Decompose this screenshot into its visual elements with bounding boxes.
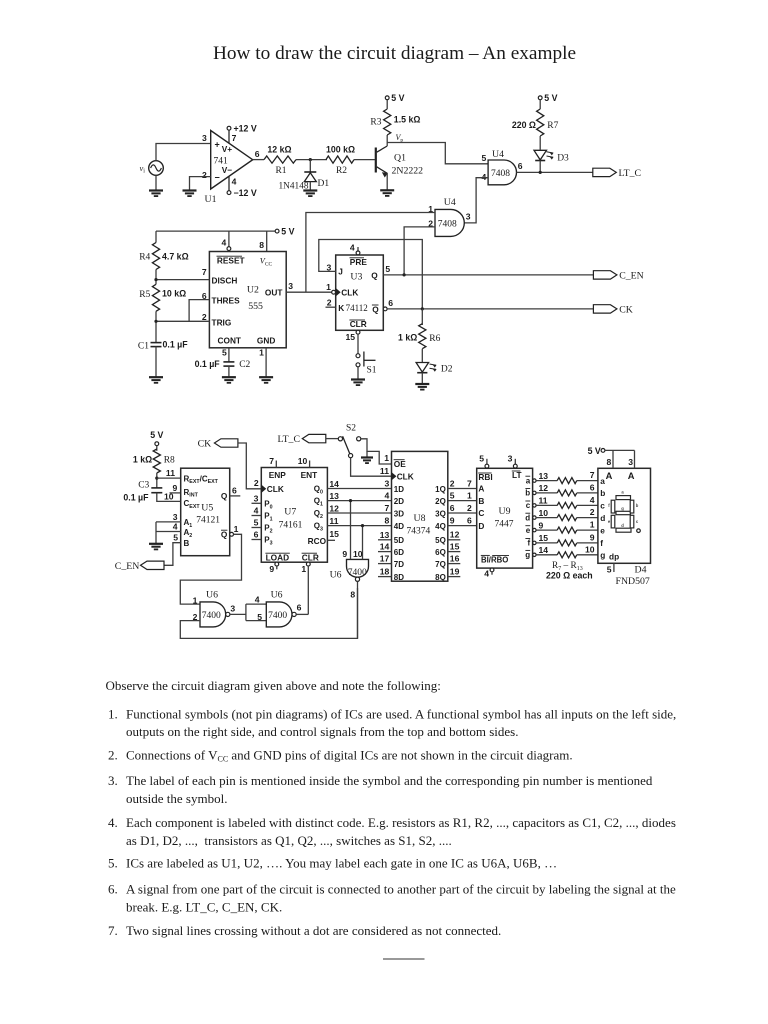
resistor R6 xyxy=(421,309,423,325)
wire U4B pin1 from 555 OUT node xyxy=(306,213,435,293)
svg-text:U6: U6 xyxy=(271,589,283,600)
5V terminal above R3 xyxy=(386,100,388,109)
svg-text:V+: V+ xyxy=(222,144,233,154)
NAND gate U6B 7400 xyxy=(266,602,292,627)
svg-text:15: 15 xyxy=(345,332,355,342)
U5 A1 input pin 3 xyxy=(156,521,181,523)
D4 decimal point xyxy=(637,529,641,533)
svg-text:R5: R5 xyxy=(139,290,150,300)
svg-text:CLR: CLR xyxy=(302,552,319,562)
svg-text:1: 1 xyxy=(301,564,306,574)
GND pin 1 wire xyxy=(265,348,267,377)
svg-text:LT: LT xyxy=(512,470,522,480)
svg-text:2: 2 xyxy=(590,507,595,517)
diode D1 1N4148 xyxy=(309,160,311,172)
svg-text:15: 15 xyxy=(329,529,339,539)
tag C_EN output xyxy=(593,271,617,279)
svg-text:4: 4 xyxy=(590,495,595,505)
wire U4B pin2 from U3 Q xyxy=(404,227,435,275)
svg-text:12: 12 xyxy=(450,530,460,540)
svg-text:U7: U7 xyxy=(284,506,296,517)
svg-text:4: 4 xyxy=(484,569,489,579)
wire CLR to switch S1 xyxy=(357,334,359,353)
svg-text:9: 9 xyxy=(173,483,178,493)
svg-text:c: c xyxy=(526,501,531,510)
svg-text:R3: R3 xyxy=(370,117,381,127)
svg-text:6: 6 xyxy=(388,298,393,308)
wire Q-bar to CK tag xyxy=(387,308,593,310)
U9 RBI pin 5 xyxy=(486,459,488,464)
svg-text:The label of each pin is menti: The label of each pin is mentioned insid… xyxy=(126,773,653,788)
svg-text:74121: 74121 xyxy=(196,515,220,525)
svg-text:5: 5 xyxy=(173,533,178,543)
AND gate U4A 7408 xyxy=(488,160,516,185)
svg-text:CK: CK xyxy=(198,438,212,449)
svg-text:V−: V− xyxy=(222,165,233,175)
svg-text:4: 4 xyxy=(385,491,390,501)
wire source to pin3 xyxy=(156,144,211,161)
svg-text:7: 7 xyxy=(232,133,237,143)
U3 CLK pin 1 xyxy=(332,290,336,294)
svg-text:Q1: Q1 xyxy=(394,152,406,163)
svg-text:e: e xyxy=(600,525,605,535)
svg-text:LOAD: LOAD xyxy=(266,552,290,562)
svg-text:3: 3 xyxy=(508,454,513,464)
svg-text:14: 14 xyxy=(539,545,549,555)
svg-text:7: 7 xyxy=(202,267,207,277)
D4 digit segment d xyxy=(616,528,631,532)
svg-text:1: 1 xyxy=(259,348,264,358)
wire U5 pin11 xyxy=(157,477,181,479)
svg-text:3: 3 xyxy=(254,493,259,503)
svg-text:d: d xyxy=(600,513,605,523)
wire U5 Q-bar to U6A pin1 xyxy=(180,534,241,604)
svg-text:b: b xyxy=(600,488,605,498)
svg-text:f: f xyxy=(528,539,531,548)
resistor R2 xyxy=(326,156,354,163)
svg-text:8: 8 xyxy=(607,457,612,467)
svg-text:1: 1 xyxy=(384,453,389,463)
svg-text:Q: Q xyxy=(221,530,228,540)
svg-text:2Q: 2Q xyxy=(435,497,446,506)
svg-text:S2: S2 xyxy=(346,423,356,433)
wire 555 OUT to U3 CLK xyxy=(286,291,332,293)
svg-text:C_EN: C_EN xyxy=(619,270,644,281)
svg-text:5: 5 xyxy=(607,565,612,575)
wire U6C input 10 from 4D row xyxy=(362,526,364,560)
svg-text:Two signal lines crossing with: Two signal lines crossing without a dot … xyxy=(126,923,501,938)
svg-text:8: 8 xyxy=(350,590,355,600)
svg-text:5: 5 xyxy=(482,153,487,163)
svg-text:LT_C: LT_C xyxy=(619,168,642,179)
D4 digit segment e xyxy=(611,515,615,528)
wire U7 CLR from U6B output xyxy=(307,566,309,614)
svg-text:220 Ω each: 220 Ω each xyxy=(546,570,593,580)
svg-text:GND: GND xyxy=(257,335,275,345)
svg-text:outside the symbol.: outside the symbol. xyxy=(126,791,227,806)
svg-text:D: D xyxy=(478,521,484,531)
svg-text:g: g xyxy=(525,551,530,560)
svg-text:TRIG: TRIG xyxy=(212,317,232,327)
svg-text:1: 1 xyxy=(193,595,198,605)
ground below S1 xyxy=(351,378,365,380)
svg-text:1: 1 xyxy=(467,490,472,500)
wire op-amp output pin 6 xyxy=(253,159,264,161)
transistor Q1 2N2222 xyxy=(375,148,377,173)
U5 Q stub pin 6 xyxy=(230,495,241,497)
svg-text:18: 18 xyxy=(380,567,390,577)
capacitor C3 xyxy=(151,487,162,489)
U7 CLK pin 2 xyxy=(261,485,265,492)
svg-text:2.: 2. xyxy=(108,747,118,762)
svg-text:g: g xyxy=(600,550,605,560)
svg-text:4: 4 xyxy=(255,594,260,604)
op-amp U1 xyxy=(211,131,253,190)
svg-text:RESET: RESET xyxy=(217,256,245,266)
wire R2 to Q1 base xyxy=(354,159,375,161)
switch S1 xyxy=(356,354,360,358)
svg-text:R6: R6 xyxy=(429,334,440,344)
svg-text:U3: U3 xyxy=(350,271,362,282)
wire S2 common to U8 CLK xyxy=(351,458,392,476)
svg-text:3: 3 xyxy=(466,212,471,222)
wire THRES pin6 xyxy=(189,300,209,322)
D4 pin 5 tick xyxy=(613,563,615,572)
svg-text:7: 7 xyxy=(467,478,472,488)
svg-text:5: 5 xyxy=(257,612,262,622)
svg-text:3: 3 xyxy=(288,281,293,291)
ground below D2 xyxy=(415,383,429,385)
svg-text:c: c xyxy=(600,501,605,511)
svg-text:C2: C2 xyxy=(239,360,250,370)
svg-text:7: 7 xyxy=(590,470,595,480)
svg-text:D2: D2 xyxy=(441,364,453,374)
wire U7 Q3 pin 11 to U8 4D xyxy=(327,525,391,527)
svg-text:3Q: 3Q xyxy=(435,509,446,518)
svg-text:B: B xyxy=(184,539,190,548)
555 Vcc pin 8 xyxy=(266,231,268,251)
svg-text:ICs are labeled as U1, U2, ….: ICs are labeled as U1, U2, …. You may la… xyxy=(126,856,557,871)
svg-text:6: 6 xyxy=(254,530,259,540)
V+ supply +12V pin 7 xyxy=(228,130,230,144)
svg-text:74112: 74112 xyxy=(346,303,368,313)
svg-text:6: 6 xyxy=(467,515,472,525)
svg-text:Connections of VCC and GND pin: Connections of VCC and GND pins of digit… xyxy=(126,747,573,763)
wire Vp node to gate U4A pin5 xyxy=(387,143,488,164)
svg-text:R4: R4 xyxy=(139,253,150,263)
U3 K pin 2 stub xyxy=(326,306,336,308)
LED D2 xyxy=(416,363,429,373)
IC U3 74112 box xyxy=(336,255,384,330)
U8 5D stub pin 13 xyxy=(378,539,392,541)
U8 8D stub pin 18 xyxy=(378,576,392,578)
footer rule xyxy=(383,958,425,960)
svg-text:3: 3 xyxy=(628,457,633,467)
svg-text:FND507: FND507 xyxy=(616,576,650,587)
svg-text:3: 3 xyxy=(202,133,207,143)
svg-text:4: 4 xyxy=(350,242,355,252)
svg-text:K: K xyxy=(338,303,344,313)
svg-text:2: 2 xyxy=(202,170,207,180)
svg-text:C1: C1 xyxy=(138,341,149,351)
wire U6C output 8 xyxy=(357,581,359,638)
svg-text:7D: 7D xyxy=(394,560,404,569)
resistor R1 xyxy=(264,156,296,163)
svg-text:7: 7 xyxy=(385,503,390,513)
svg-text:R8: R8 xyxy=(164,456,175,466)
node R8 C3 junction xyxy=(155,477,158,480)
wire U6B out to U7 CLR xyxy=(296,613,308,615)
capacitor C2 at CONT pin5 xyxy=(228,348,230,362)
svg-text:7408: 7408 xyxy=(438,220,457,230)
svg-text:Q: Q xyxy=(221,491,228,501)
svg-text:D3: D3 xyxy=(557,153,569,163)
svg-text:19: 19 xyxy=(450,566,460,576)
svg-text:4.7 kΩ: 4.7 kΩ xyxy=(162,251,189,261)
wire Q to C_EN tag xyxy=(383,274,593,276)
ground at Q1 emitter xyxy=(380,189,394,191)
svg-text:5: 5 xyxy=(385,264,390,274)
svg-text:5D: 5D xyxy=(394,536,404,545)
wire TRIG pin2 xyxy=(156,320,209,322)
svg-text:Q: Q xyxy=(372,304,379,314)
svg-text:C_EN: C_EN xyxy=(115,561,140,572)
svg-text:1D: 1D xyxy=(394,485,404,494)
U7 P0 stub pin 3 xyxy=(252,502,262,504)
U7 P2 stub pin 5 xyxy=(252,527,262,529)
svg-text:as D1, D2, ..., transistors a: as D1, D2, ..., transistors as Q1, Q2, .… xyxy=(126,833,452,848)
svg-text:3D: 3D xyxy=(394,509,404,518)
svg-text:7447: 7447 xyxy=(495,520,514,530)
resistor R3 xyxy=(384,109,391,135)
ground below D1 xyxy=(303,189,317,191)
svg-text:R1: R1 xyxy=(275,166,286,176)
svg-text:OE: OE xyxy=(394,459,406,469)
svg-text:10: 10 xyxy=(539,508,549,518)
svg-text:d: d xyxy=(525,513,530,522)
svg-text:6.: 6. xyxy=(108,881,118,896)
svg-text:1: 1 xyxy=(234,524,239,534)
svg-text:RBI: RBI xyxy=(478,472,492,482)
svg-text:4: 4 xyxy=(232,176,237,186)
svg-text:4: 4 xyxy=(173,521,178,531)
svg-text:12: 12 xyxy=(539,483,549,493)
svg-text:C: C xyxy=(478,508,484,518)
svg-text:CK: CK xyxy=(619,304,633,315)
node Q-bar junction xyxy=(421,307,424,310)
svg-text:220 Ω: 220 Ω xyxy=(512,120,536,130)
svg-text:b: b xyxy=(525,489,530,498)
wire U4A output to LT_C xyxy=(517,171,593,173)
U7 ENP pin 7 tick xyxy=(275,461,277,468)
svg-text:U1: U1 xyxy=(205,194,217,205)
svg-text:U8: U8 xyxy=(414,513,426,524)
svg-text:CLK: CLK xyxy=(341,288,358,298)
svg-text:dp: dp xyxy=(609,552,619,562)
svg-text:A: A xyxy=(606,471,613,481)
svg-text:9: 9 xyxy=(342,549,347,559)
svg-text:2: 2 xyxy=(327,298,332,308)
wire A1 A2 to ground xyxy=(155,522,157,544)
svg-text:THRES: THRES xyxy=(212,295,241,305)
NAND gate U6A 7400 xyxy=(200,602,226,627)
ground below A inputs xyxy=(149,543,163,545)
svg-text:PRE: PRE xyxy=(350,257,368,267)
wire U7 Q1 pin 13 to U8 2D xyxy=(327,500,391,502)
D4 digit segment g xyxy=(616,511,631,514)
wire R1 to R2 xyxy=(296,159,327,161)
svg-text:OUT: OUT xyxy=(265,288,283,298)
svg-text:11: 11 xyxy=(539,496,548,506)
svg-text:13: 13 xyxy=(329,491,339,501)
svg-text:6: 6 xyxy=(450,503,455,513)
svg-text:5: 5 xyxy=(479,454,484,464)
svg-text:5 V: 5 V xyxy=(588,446,601,456)
svg-text:5.: 5. xyxy=(108,856,118,871)
svg-text:2: 2 xyxy=(254,478,259,488)
svg-text:4: 4 xyxy=(482,172,487,182)
svg-text:12 kΩ: 12 kΩ xyxy=(267,144,291,154)
node D3 junction xyxy=(539,171,542,174)
svg-text:7.: 7. xyxy=(108,923,118,938)
svg-text:5: 5 xyxy=(450,490,455,500)
tag CK input xyxy=(214,439,238,447)
svg-text:−: − xyxy=(215,173,220,183)
U5 pin9 stub xyxy=(170,492,181,494)
svg-text:2: 2 xyxy=(450,478,455,488)
svg-text:17: 17 xyxy=(380,554,390,564)
svg-text:U2: U2 xyxy=(247,285,259,296)
svg-text:DISCH: DISCH xyxy=(212,275,238,285)
svg-text:A: A xyxy=(628,471,635,481)
svg-text:1.: 1. xyxy=(108,706,118,721)
source vi xyxy=(149,161,164,176)
svg-text:0.1 µF: 0.1 µF xyxy=(123,492,149,502)
svg-text:0.1 µF: 0.1 µF xyxy=(195,359,221,369)
IC U7 74161 box xyxy=(261,468,327,563)
tag LT_C output xyxy=(593,168,617,176)
svg-text:1: 1 xyxy=(590,520,595,530)
wire U7 Q2 pin 12 to U8 3D xyxy=(327,512,391,514)
svg-text:3: 3 xyxy=(230,603,235,613)
svg-text:A signal from one part of the: A signal from one part of the circuit is… xyxy=(126,881,676,896)
svg-text:12: 12 xyxy=(329,503,339,513)
svg-text:100 kΩ: 100 kΩ xyxy=(326,145,355,155)
svg-text:14: 14 xyxy=(380,542,390,552)
LED D3 xyxy=(534,150,547,160)
U9 LT pin 3 xyxy=(514,459,516,464)
svg-text:8D: 8D xyxy=(394,573,404,582)
svg-text:16: 16 xyxy=(450,553,460,563)
svg-text:outputs on the right side, and: outputs on the right side, and control s… xyxy=(126,724,518,739)
ground below C1 xyxy=(149,376,163,378)
svg-text:6Q: 6Q xyxy=(435,548,446,557)
U7 ENT pin 10 tick xyxy=(309,461,311,468)
resistor R8 xyxy=(153,449,160,473)
svg-text:0.1 µF: 0.1 µF xyxy=(163,339,189,349)
node D1 tap xyxy=(309,158,312,161)
svg-text:9: 9 xyxy=(539,520,544,530)
svg-text:5 V: 5 V xyxy=(150,430,163,440)
tag CK output xyxy=(593,305,617,313)
svg-text:Observe the circuit diagram gi: Observe the circuit diagram given above … xyxy=(106,678,441,693)
svg-text:11: 11 xyxy=(166,468,175,478)
wire J loop from Q-bar node xyxy=(319,240,423,309)
svg-text:7400: 7400 xyxy=(268,611,287,621)
svg-text:6: 6 xyxy=(297,603,302,613)
svg-text:3: 3 xyxy=(173,512,178,522)
display D4 FND507 box xyxy=(598,468,651,563)
IC U9 7447 box xyxy=(477,468,533,568)
svg-text:+12 V: +12 V xyxy=(234,124,257,134)
svg-text:4: 4 xyxy=(222,237,227,247)
wire CK to U7 CLK xyxy=(238,443,261,489)
svg-text:2: 2 xyxy=(467,503,472,513)
D4 digit segment c xyxy=(630,515,634,528)
svg-text:A: A xyxy=(478,484,484,494)
svg-text:5Q: 5Q xyxy=(435,536,446,545)
svg-text:10: 10 xyxy=(353,549,363,559)
svg-text:9: 9 xyxy=(450,515,455,525)
svg-text:13: 13 xyxy=(380,530,390,540)
svg-text:break. E.g. LT_C, C_EN, CK.: break. E.g. LT_C, C_EN, CK. xyxy=(126,899,282,914)
svg-text:6: 6 xyxy=(518,161,523,171)
svg-text:U4: U4 xyxy=(492,149,504,160)
svg-text:5: 5 xyxy=(222,348,227,358)
svg-text:e: e xyxy=(526,526,531,535)
svg-text:6: 6 xyxy=(255,149,260,159)
svg-text:B: B xyxy=(478,496,484,506)
ground at pin2 xyxy=(183,189,197,191)
svg-text:LT_C: LT_C xyxy=(277,434,300,445)
svg-text:9: 9 xyxy=(590,533,595,543)
svg-text:5 V: 5 V xyxy=(391,93,404,103)
svg-text:1 kΩ: 1 kΩ xyxy=(133,454,152,464)
svg-text:2: 2 xyxy=(202,312,207,322)
D4 digit segment a xyxy=(616,496,631,500)
svg-text:RCO: RCO xyxy=(308,536,327,546)
svg-text:13: 13 xyxy=(539,471,549,481)
svg-text:7400: 7400 xyxy=(202,611,221,621)
svg-text:J: J xyxy=(338,267,343,277)
resistor R4 xyxy=(155,231,157,242)
V- supply -12V pin 4 xyxy=(228,176,230,191)
svg-text:2D: 2D xyxy=(394,497,404,506)
wire source to ground xyxy=(155,175,157,190)
svg-text:−12 V: −12 V xyxy=(234,188,257,198)
wire U6A pin2 feedback from U6C xyxy=(180,588,357,638)
ground below source xyxy=(149,189,163,191)
svg-text:2N2222: 2N2222 xyxy=(392,166,424,177)
svg-text:U6: U6 xyxy=(206,589,218,600)
wire DISCH pin7 xyxy=(156,279,209,281)
U8 CLK pin 11 xyxy=(392,473,396,480)
wire U6C input 9 from 2D row xyxy=(350,501,352,560)
svg-text:Q: Q xyxy=(371,270,378,280)
tag LT_C input xyxy=(302,434,326,442)
svg-text:3.: 3. xyxy=(108,773,118,788)
svg-text:How to draw the circuit diagra: How to draw the circuit diagram – An exa… xyxy=(213,43,576,64)
ground at S2 right throw xyxy=(366,451,368,457)
svg-text:S1: S1 xyxy=(367,365,377,375)
svg-text:4: 4 xyxy=(254,506,259,516)
svg-text:9: 9 xyxy=(269,564,274,574)
wire S2 right throw to OE xyxy=(361,439,392,464)
svg-text:6D: 6D xyxy=(394,548,404,557)
svg-text:CLK: CLK xyxy=(397,472,414,482)
wire pin2 to ground xyxy=(190,177,211,191)
svg-text:f: f xyxy=(600,538,603,548)
